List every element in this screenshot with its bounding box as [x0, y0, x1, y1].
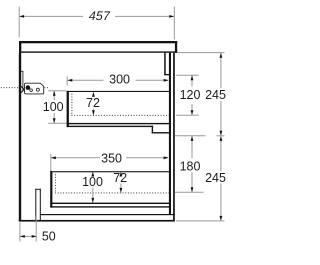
cabinet bottom panel top edge — [40, 214, 175, 215]
plinth front line 1 — [35, 189, 36, 221]
upper drawer back step vertical — [152, 126, 153, 134]
lower drawer bottom line 2 — [50, 206, 171, 207]
dim 50 left arrow — [20, 235, 25, 238]
lower drawer dotted inner horizontal — [55, 192, 169, 194]
upper drawer dotted inner vertical — [71, 94, 73, 115]
dim 100 upper bottom tick — [48, 122, 66, 124]
countertop slab right edge — [175, 41, 177, 53]
bracket body — [25, 83, 44, 94]
dim 50 left extension line — [19, 223, 21, 242]
bracket centerline dash-dot left — [1, 87, 21, 89]
dim 245 lower bottom tick — [176, 220, 225, 222]
lower drawer bottom line 1 — [50, 203, 171, 204]
plinth front line 2 — [40, 189, 41, 221]
dim 457 line — [20, 15, 83, 17]
dim 457 left extension line — [18, 7, 20, 38]
dim 350 line — [51, 157, 100, 159]
upper drawer top line — [67, 91, 170, 92]
dim 457 left arrow — [19, 15, 24, 18]
lower drawer top line — [50, 171, 169, 172]
svg-text:350: 350 — [101, 152, 122, 166]
svg-text:300: 300 — [109, 72, 130, 86]
upper drawer front edge — [67, 91, 69, 127]
upper drawer bottom line 2 — [67, 126, 154, 127]
bracket right hole — [36, 88, 39, 91]
back inner vertical line — [169, 53, 171, 215]
dim 100 upper top tick — [48, 90, 66, 92]
plinth top cap — [35, 189, 41, 190]
back rail bottom cap — [164, 74, 169, 75]
dim 245 lower up arrow — [220, 136, 223, 141]
dim 72 upper up arrow — [92, 92, 95, 97]
dim 120 line — [191, 76, 193, 87]
dim 100 lower up arrow — [91, 172, 94, 177]
dim 100 upper down arrow — [53, 118, 56, 123]
svg-text:245: 245 — [205, 88, 226, 102]
dim 100 lower line — [92, 172, 94, 176]
dim 350 left extension line — [50, 154, 52, 171]
svg-text:100: 100 — [82, 175, 103, 189]
upper drawer bottom line 1 — [67, 123, 172, 124]
bracket centerline dash right — [44, 87, 48, 89]
dim 245 upper up arrow — [220, 53, 223, 58]
dim 72 upper line — [92, 93, 94, 97]
lower drawer dotted inner vertical — [54, 174, 56, 192]
bracket wall clip wedge — [21, 86, 24, 92]
svg-text:72: 72 — [113, 171, 127, 185]
back rail left edge — [164, 53, 166, 75]
dim 180 down arrow — [191, 187, 194, 192]
svg-text:245: 245 — [205, 171, 226, 185]
right back panel — [173, 53, 175, 221]
svg-text:50: 50 — [42, 230, 56, 244]
dim 50 right arrow — [32, 235, 37, 238]
lower drawer front edge — [50, 171, 52, 207]
dim 72 lower up arrow — [120, 172, 123, 177]
svg-text:72: 72 — [86, 96, 100, 110]
countertop slab top edge — [19, 41, 177, 43]
dim 350 left arrow — [51, 156, 56, 159]
svg-text:100: 100 — [43, 100, 64, 114]
dim 72 lower line — [120, 172, 122, 174]
dim 72 lower down arrow — [120, 188, 123, 193]
svg-text:457: 457 — [88, 9, 112, 23]
dim 180 up arrow — [191, 136, 194, 141]
mid junction tick for 245 — [217, 135, 225, 137]
cabinet bottom panel bottom edge — [19, 220, 175, 222]
bracket filled cam circle — [26, 85, 31, 90]
upper drawer back step bottom — [152, 132, 171, 133]
dim 300 line — [68, 79, 104, 81]
dim 350 right arrow — [164, 156, 169, 159]
dim 120 down arrow — [191, 110, 194, 115]
dim 100 upper up arrow — [53, 91, 56, 96]
dim 72 upper down arrow — [92, 110, 95, 115]
dim 180 line — [191, 136, 193, 158]
dim 120 top tick — [176, 74, 199, 76]
dim 300 left extension line — [66, 76, 68, 85]
svg-text:120: 120 — [180, 88, 201, 102]
dim 120 bottom tick — [176, 114, 199, 116]
dim 245 lower line — [220, 136, 222, 171]
dim 180 bottom tick — [175, 191, 204, 193]
countertop slab bottom edge — [19, 51, 177, 52]
dim 120 up arrow — [191, 75, 194, 80]
dim 300 left arrow — [68, 79, 73, 82]
dim 457 right arrow — [169, 15, 174, 18]
dim 300 right arrow — [164, 79, 169, 82]
left side panel — [19, 53, 21, 221]
dim 245 lower down arrow — [220, 216, 223, 221]
upper drawer dotted inner horizontal — [71, 114, 168, 116]
dim 50 line — [20, 235, 36, 237]
countertop slab left edge — [19, 41, 21, 53]
dim 100 lower down arrow — [91, 198, 94, 203]
dim 100 upper line — [53, 91, 55, 100]
bracket arm thin L — [21, 71, 23, 91]
bracket small hole — [30, 89, 33, 92]
dim 245 upper line — [220, 53, 222, 88]
svg-text:180: 180 — [180, 159, 201, 173]
mid extension line for 180 top — [175, 135, 206, 137]
dim 457 right extension line — [173, 7, 175, 40]
dim 245 upper top tick — [177, 52, 224, 54]
dim 50 right extension line — [35, 216, 37, 242]
dim 245 upper down arrow — [220, 131, 223, 136]
